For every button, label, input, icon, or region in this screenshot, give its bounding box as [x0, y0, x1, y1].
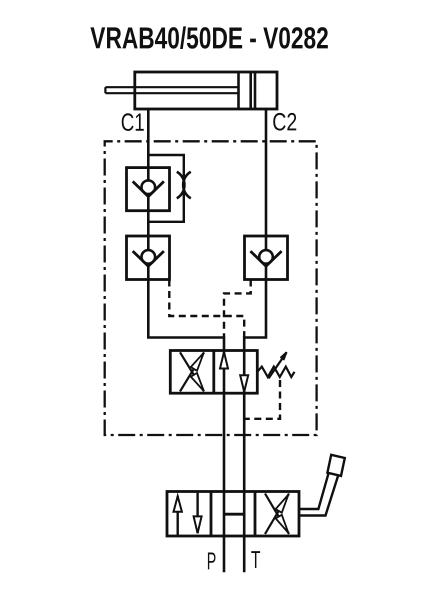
- svg-text:VRAB40/50DE - V0282: VRAB40/50DE - V0282: [90, 21, 329, 55]
- svg-text:C1: C1: [121, 109, 145, 137]
- svg-text:P: P: [207, 548, 217, 575]
- svg-text:T: T: [251, 547, 261, 574]
- svg-text:C2: C2: [272, 108, 297, 136]
